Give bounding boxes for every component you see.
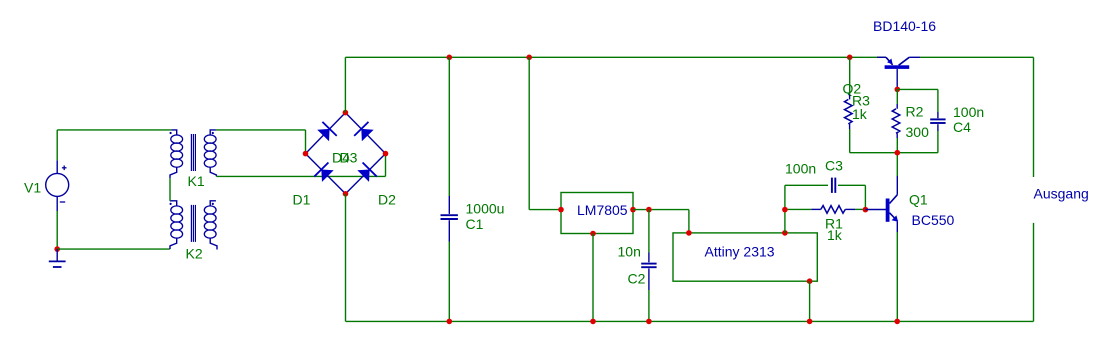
- svg-text:BC550: BC550: [912, 212, 955, 228]
- resistor R2: [896, 89, 898, 104]
- node bridge top: [343, 110, 349, 116]
- wire bottom rail: [346, 320, 1034, 322]
- svg-text:10n: 10n: [618, 244, 641, 260]
- diode D2: [346, 154, 386, 194]
- wire rail to LM7805 input: [528, 57, 530, 209]
- node Q1 emitter bottom rail: [894, 319, 900, 325]
- wire output bottom: [1033, 223, 1035, 322]
- node LM7805 gnd pin: [590, 231, 596, 237]
- IC U2 Attiny 2313: [673, 233, 817, 281]
- node C2 top junction: [646, 207, 652, 213]
- svg-text:C3: C3: [825, 158, 843, 174]
- svg-text:V1: V1: [24, 180, 41, 196]
- node V1-ground junction: [54, 246, 60, 252]
- svg-text:Q1: Q1: [909, 192, 928, 208]
- svg-text:R2: R2: [906, 104, 924, 120]
- svg-text:1k: 1k: [852, 106, 868, 122]
- svg-text:100n: 100n: [785, 161, 816, 177]
- node R1 right junction: [863, 207, 869, 213]
- transistor Q1: [865, 209, 886, 211]
- svg-text:C2: C2: [628, 271, 646, 287]
- diode D1: [306, 113, 346, 154]
- svg-text:300: 300: [906, 124, 930, 140]
- wire top rail: [345, 56, 886, 58]
- wire V1 top: [56, 130, 58, 160]
- node bottom rail LM7805 gnd: [590, 319, 596, 325]
- wire bridge top to rail: [344, 57, 346, 112]
- wire bridge bottom to rail: [345, 194, 347, 322]
- svg-text:K1: K1: [188, 173, 205, 189]
- diode D3: [345, 113, 385, 154]
- svg-text:D3: D3: [340, 150, 358, 166]
- wire K1 to K2 left: [169, 178, 171, 201]
- node bridge bottom: [343, 191, 349, 197]
- wire LM7805 gnd: [592, 234, 594, 322]
- resistor R3: [849, 57, 851, 94]
- svg-text:D2: D2: [378, 192, 396, 208]
- svg-text:K2: K2: [186, 246, 203, 262]
- wire V1 to K1: [57, 129, 171, 131]
- svg-text:100n: 100n: [953, 104, 984, 120]
- node Attiny gnd pin: [807, 278, 813, 284]
- node R1 left junction: [782, 207, 788, 213]
- svg-text:1k: 1k: [827, 227, 843, 243]
- svg-text:Ausgang: Ausgang: [1034, 186, 1089, 202]
- node X junction: [895, 150, 901, 156]
- wire K1 top to bridge left node: [216, 129, 306, 131]
- node Attiny pb pin: [782, 230, 788, 236]
- diode D4: [306, 154, 346, 194]
- node LM7805 input pin: [558, 207, 564, 213]
- wire to Attiny vcc: [688, 210, 690, 233]
- wire top rail right: [920, 56, 1034, 58]
- node bridge left: [303, 151, 309, 157]
- node bridge right: [383, 151, 389, 157]
- wire R3 bottom to node X: [850, 152, 898, 154]
- capacitor C3: [784, 185, 786, 209]
- wire ground to K2: [57, 248, 170, 250]
- wire output top: [1033, 57, 1035, 177]
- svg-text:C1: C1: [466, 216, 484, 232]
- wire V1 bottom: [56, 211, 58, 249]
- transistor Q2: [877, 56, 886, 58]
- node bottom rail C2: [646, 319, 652, 325]
- resistor R1: [785, 208, 811, 210]
- node top rail R3: [847, 55, 853, 61]
- svg-text:C4: C4: [953, 119, 971, 135]
- svg-text:Attiny 2313: Attiny 2313: [705, 244, 775, 260]
- node top rail C1: [447, 55, 453, 61]
- voltage source V1: [46, 173, 69, 196]
- wire LM7805 output: [633, 209, 689, 211]
- node top rail LM7805: [526, 55, 532, 61]
- node Q2 base junction: [895, 87, 901, 93]
- svg-text:BD140-16: BD140-16: [873, 18, 936, 34]
- capacitor C2: [648, 210, 650, 253]
- regulator U1 LM7805: [561, 193, 633, 234]
- node bottom rail Attiny gnd: [807, 319, 813, 325]
- wire K1 bottom to bridge right node: [216, 175, 385, 177]
- node Attiny vcc pin: [686, 230, 692, 236]
- ground: [56, 249, 58, 261]
- wire Attiny gnd: [809, 281, 811, 321]
- transformer K1: [171, 130, 176, 135]
- wire Attiny pb to R1 junction: [784, 210, 786, 233]
- wire node X to C4 bottom: [897, 152, 938, 154]
- svg-text:1000u: 1000u: [466, 201, 505, 217]
- node bottom rail C1: [447, 319, 453, 325]
- transformer K2: [170, 201, 177, 206]
- svg-text:LM7805: LM7805: [577, 202, 628, 218]
- capacitor C1: [448, 57, 450, 196]
- node LM7805 output pin: [630, 207, 636, 213]
- svg-text:D1: D1: [293, 192, 311, 208]
- capacitor C4: [897, 88, 938, 90]
